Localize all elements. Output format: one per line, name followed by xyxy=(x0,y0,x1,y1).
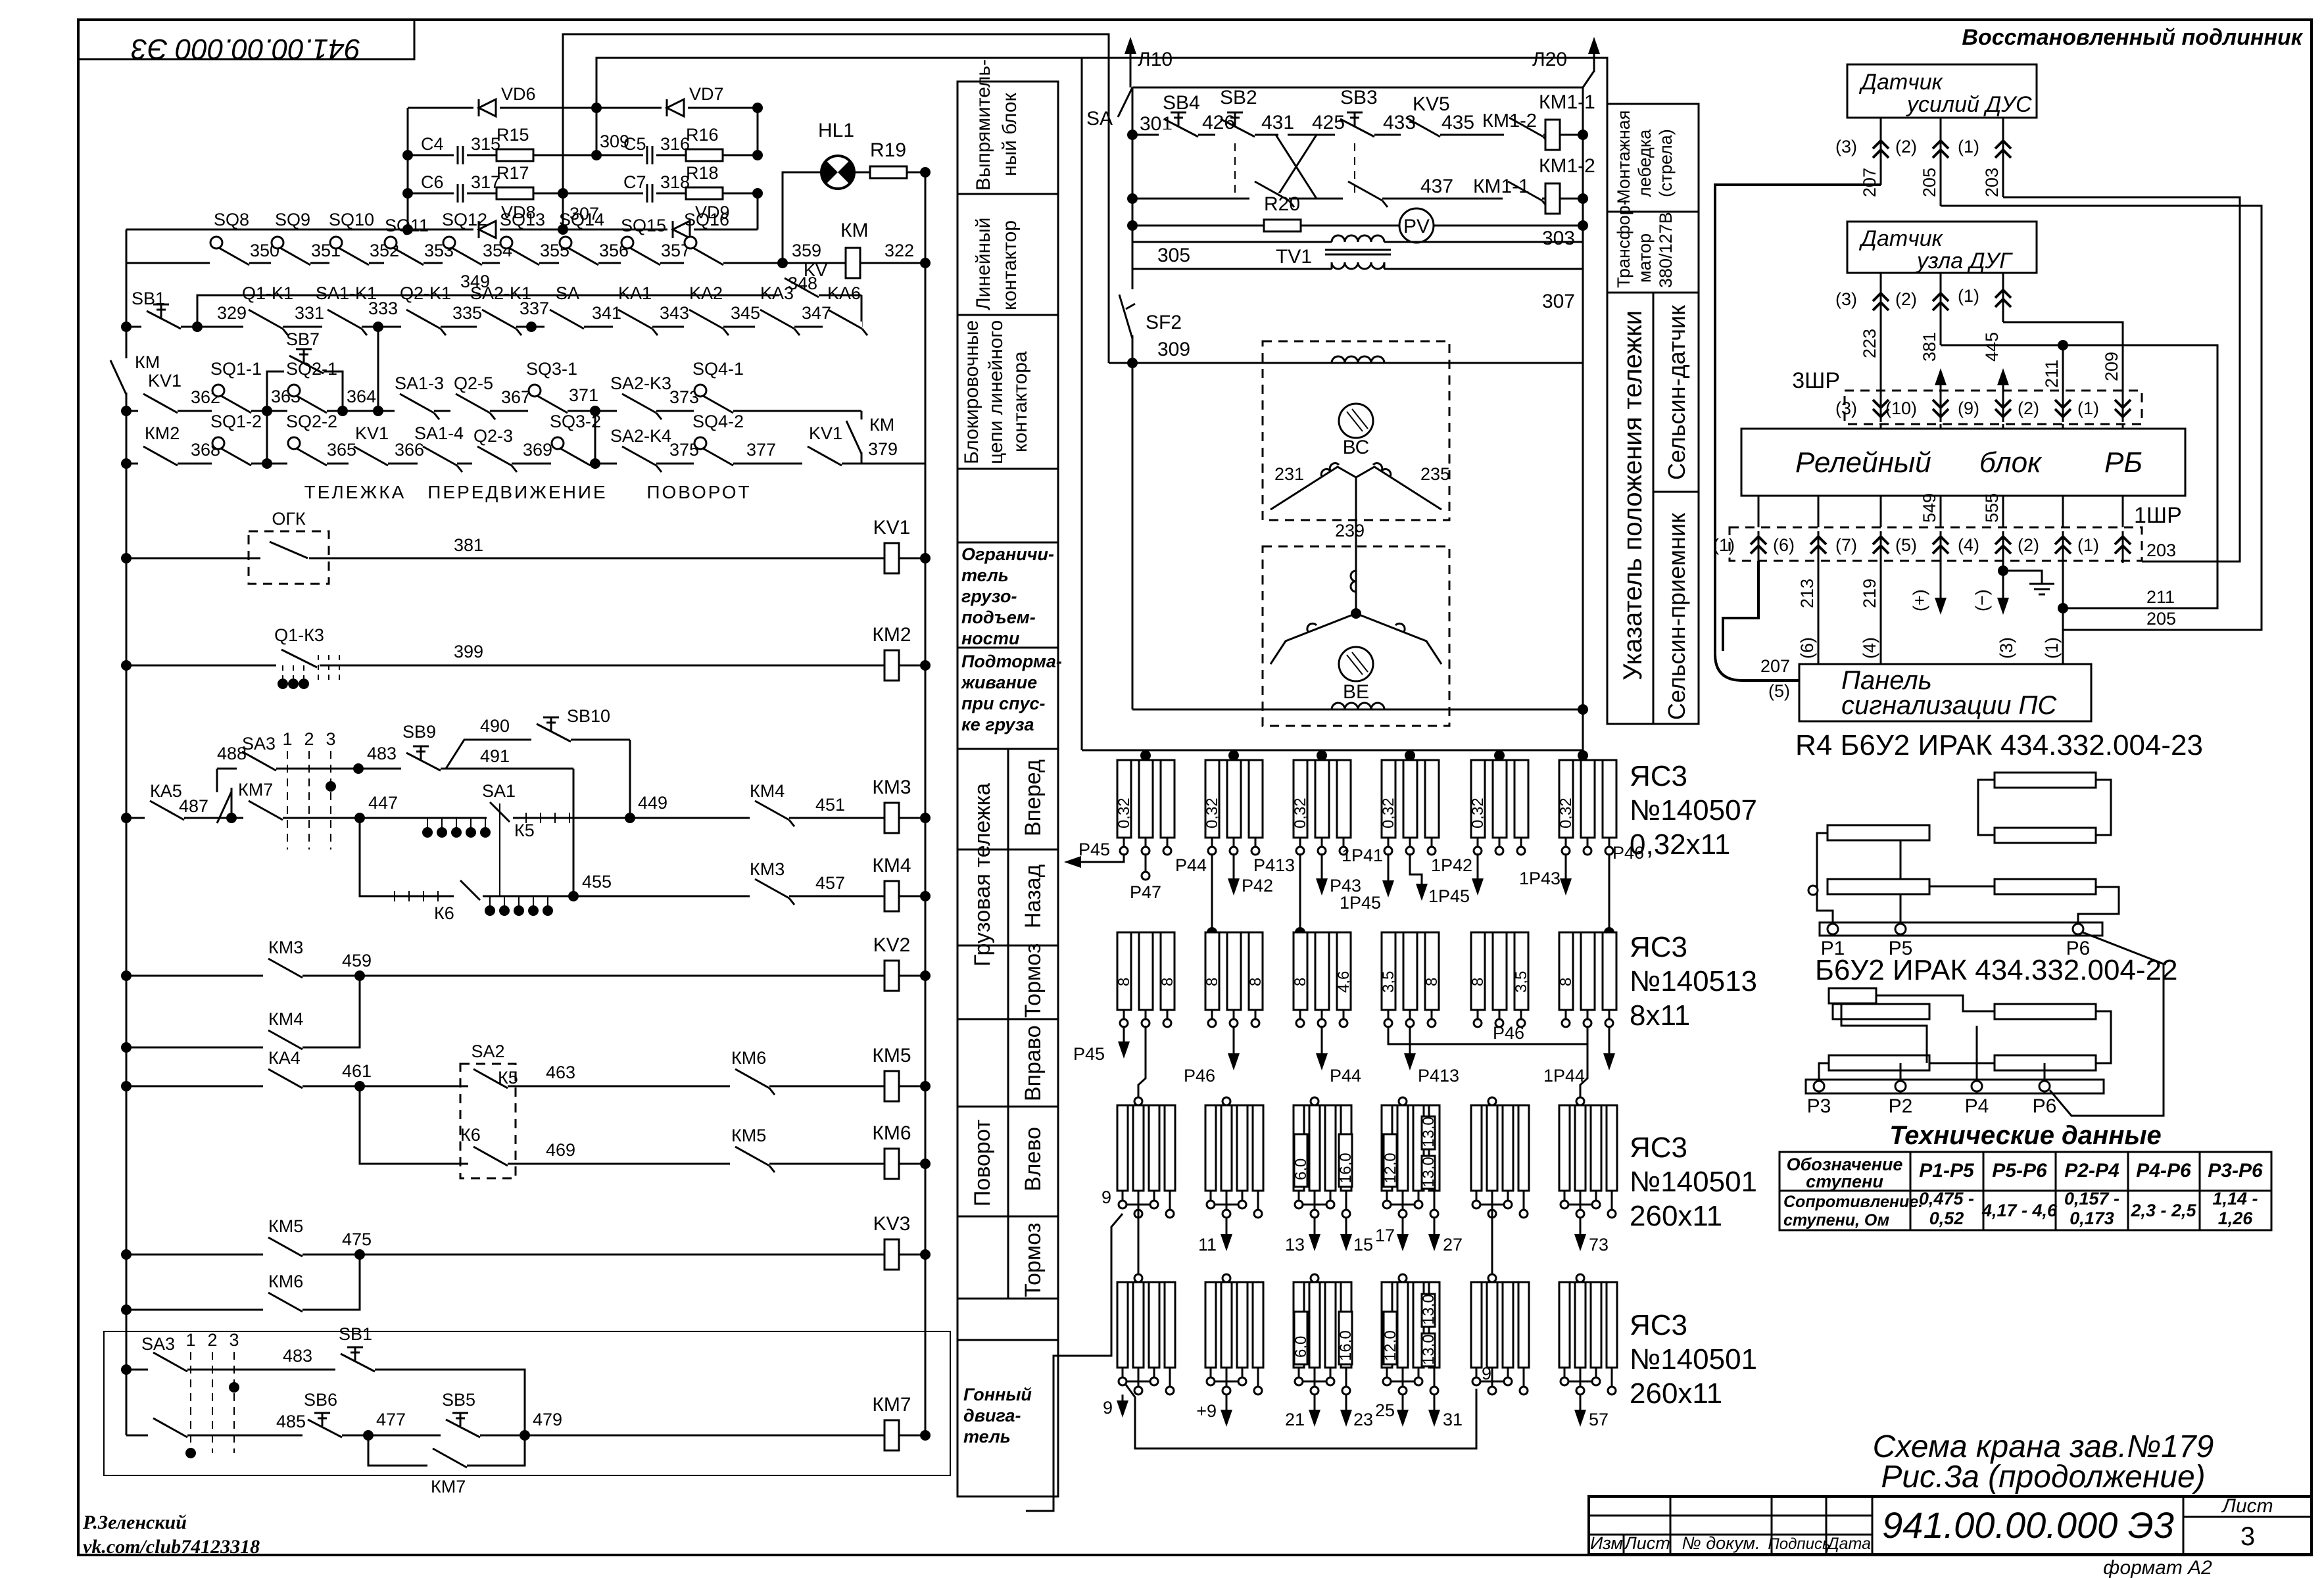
svg-text:13: 13 xyxy=(1285,1235,1305,1255)
svg-text:Восстановленный подлинник: Восстановленный подлинник xyxy=(1962,25,2303,50)
svg-text:15: 15 xyxy=(1353,1235,1373,1255)
svg-text:1P42: 1P42 xyxy=(1431,855,1472,875)
3ShR pin 3 xyxy=(1835,391,1889,429)
svg-text:Вправо: Вправо xyxy=(1021,1026,1046,1102)
terminal P6b xyxy=(2039,1081,2050,1091)
row3 value boxes xyxy=(1292,1116,1438,1189)
arrow 9 row4 xyxy=(1103,1395,1128,1418)
svg-text:207: 207 xyxy=(1860,168,1879,197)
svg-text:R20: R20 xyxy=(1264,193,1300,215)
bank row1 group1 xyxy=(1117,760,1174,855)
contactor coil KM5 xyxy=(884,1071,899,1101)
resistor bar G xyxy=(1833,1004,1929,1019)
1ShR pin 2 xyxy=(2018,531,2071,563)
contact KM1-2 on row1 xyxy=(1504,118,1549,143)
wire row SB1 / 329-347 xyxy=(126,326,861,328)
svg-text:477: 477 xyxy=(376,1410,406,1429)
node 449 xyxy=(625,813,635,823)
wire left vertical of network xyxy=(407,108,409,229)
svg-text:369: 369 xyxy=(523,440,552,460)
svg-text:SQ12: SQ12 xyxy=(442,210,487,229)
svg-text:331: 331 xyxy=(295,303,324,323)
limit switch SQ1-1 xyxy=(212,385,251,415)
capacitor C7 xyxy=(643,184,656,203)
svg-text:3: 3 xyxy=(326,729,335,749)
bank row3 group2 xyxy=(1205,1097,1263,1218)
svg-text:(−): (−) xyxy=(1972,589,1992,611)
svg-text:ности: ности xyxy=(961,629,1020,648)
push button SB10 xyxy=(531,717,571,744)
arrow 15 xyxy=(1340,1218,1373,1255)
wire C4 row xyxy=(408,155,758,156)
contactor blade KM on link xyxy=(846,415,898,459)
junction dot bus row625 xyxy=(121,406,132,416)
svg-text:Тормоз: Тормоз xyxy=(1021,1223,1046,1297)
wire 363-365 vertical xyxy=(266,411,268,464)
wire row KM6 bypass xyxy=(126,1255,360,1310)
svg-text:SA3: SA3 xyxy=(242,734,276,753)
relay block RB xyxy=(1741,429,2185,496)
selsyn BE rotor coil on 1079 xyxy=(1132,709,1583,711)
diode VD9 xyxy=(667,220,694,239)
sensor block DUS xyxy=(1847,64,2037,118)
switch SA xyxy=(545,310,584,331)
svg-text:vk.com/club74123318: vk.com/club74123318 xyxy=(83,1536,260,1558)
svg-text:SA: SA xyxy=(1086,108,1113,130)
svg-text:Q2-5: Q2-5 xyxy=(454,373,493,393)
wire corner 348 down xyxy=(861,295,863,327)
arrow 23 xyxy=(1340,1395,1373,1429)
svg-text:8: 8 xyxy=(1203,978,1221,986)
contact SA1-4 xyxy=(418,446,462,472)
arrow 17 xyxy=(1375,1218,1409,1251)
svg-text:P413: P413 xyxy=(1418,1066,1459,1086)
wire top inner link y=88 xyxy=(596,58,1082,155)
svg-text:P46: P46 xyxy=(1612,843,1644,863)
svg-text:455: 455 xyxy=(582,872,612,892)
signal panel PS xyxy=(1799,664,2091,721)
svg-text:459: 459 xyxy=(342,951,372,970)
1ShR pin 1a xyxy=(1713,531,1766,563)
contactor contact KM7 xyxy=(427,1448,467,1470)
terminal P6 xyxy=(2073,924,2083,934)
svg-text:4,6: 4,6 xyxy=(1335,971,1353,993)
wire row 362-373 xyxy=(126,410,861,412)
wire row 368-377 xyxy=(126,463,925,465)
svg-text:364: 364 xyxy=(347,387,376,406)
svg-text:SB6: SB6 xyxy=(304,1390,337,1410)
1ShR pin 7 xyxy=(1835,531,1889,563)
wire fork to 490 line xyxy=(446,740,630,769)
svg-text:491: 491 xyxy=(480,746,510,766)
contactor blade KM7 rising xyxy=(217,780,273,823)
resistor R17 xyxy=(496,187,533,199)
relay contact KV1 right xyxy=(802,446,842,467)
relay contact KV1 xyxy=(138,394,178,415)
wire SB7 sub-row xyxy=(267,371,343,411)
arrow 1P45 second xyxy=(1410,853,1470,906)
svg-text:3: 3 xyxy=(2240,1522,2255,1551)
svg-text:ЯС3: ЯС3 xyxy=(1630,760,1687,792)
svg-text:KV3: KV3 xyxy=(873,1213,911,1235)
row4 bottom route wire xyxy=(1126,1364,1491,1448)
svg-text:(2): (2) xyxy=(2018,398,2039,418)
wire 303 secondary xyxy=(1132,241,1332,243)
RB lead x2860 xyxy=(1880,496,1882,527)
wire P46 right xyxy=(1604,843,1644,938)
svg-text:1P41: 1P41 xyxy=(1342,846,1383,865)
resistor bar D xyxy=(1995,828,2096,843)
svg-text:KV1: KV1 xyxy=(355,423,389,443)
svg-text:399: 399 xyxy=(454,642,483,661)
push button SB7 xyxy=(284,349,324,375)
RB lead x3137 xyxy=(2062,496,2064,527)
svg-text:HL1: HL1 xyxy=(818,120,854,141)
wire row 447-451 xyxy=(126,817,925,819)
3ShR pin 1 xyxy=(2077,391,2131,429)
RB lead x3046 with 555 xyxy=(1982,493,2003,527)
resistor bar H xyxy=(1995,1004,2096,1019)
bank row2 group1 xyxy=(1117,932,1174,1027)
relay coil KV1 xyxy=(884,543,899,573)
relay contact KA4 xyxy=(263,1069,303,1090)
bank row2 group2 xyxy=(1205,932,1263,1027)
svg-text:309: 309 xyxy=(600,131,629,151)
svg-text:контактор: контактор xyxy=(999,220,1021,310)
limit switch SQ15 xyxy=(621,237,660,267)
bank row4 group4 xyxy=(1382,1274,1440,1395)
contactor contact KM3 xyxy=(750,879,794,905)
push button SB4 xyxy=(1159,112,1198,139)
svg-text:16,0: 16,0 xyxy=(1337,1153,1355,1183)
bank row2 group3 xyxy=(1294,932,1351,1027)
svg-text:P46: P46 xyxy=(1493,1023,1524,1043)
wire row 485-479 xyxy=(126,1435,925,1437)
svg-text:Технические данные: Технические данные xyxy=(1889,1121,2162,1150)
arrow P42 xyxy=(1228,853,1273,896)
svg-text:ТЕЛЕЖКА: ТЕЛЕЖКА xyxy=(304,482,406,502)
svg-text:SQ2-1: SQ2-1 xyxy=(286,359,337,379)
row3-row4 links xyxy=(1138,1208,1580,1274)
svg-text:941.00.00.000 Э3: 941.00.00.000 Э3 xyxy=(131,33,360,65)
contactor contact KM6 xyxy=(730,1069,775,1095)
arrow P43 xyxy=(1316,853,1361,896)
terminal P5 xyxy=(1895,924,1906,934)
bank row4 group6 xyxy=(1559,1274,1617,1395)
switch SA3 blade row2083 xyxy=(148,1352,187,1374)
svg-text:12,0: 12,0 xyxy=(1382,1153,1399,1183)
node 447 xyxy=(354,813,365,823)
switch SA3 blade row2183 xyxy=(148,1418,187,1439)
junction dot bus row497 xyxy=(121,322,132,332)
svg-text:Блокировочные: Блокировочные xyxy=(961,320,982,464)
svg-text:SQ14: SQ14 xyxy=(559,210,604,229)
wire bottom return xyxy=(1082,750,1583,752)
svg-text:Лист: Лист xyxy=(1623,1533,1670,1553)
svg-text:0,32: 0,32 xyxy=(1380,798,1397,828)
svg-text:SQ2-2: SQ2-2 xyxy=(286,412,337,431)
svg-text:SF2: SF2 xyxy=(1146,312,1182,333)
svg-text:P2: P2 xyxy=(1889,1095,1913,1117)
svg-text:грузо-: грузо- xyxy=(961,586,1017,606)
dashed link SB3 xyxy=(1354,143,1355,194)
dashed selector lines 1-2-3 xyxy=(287,751,288,849)
svg-text:309: 309 xyxy=(1157,339,1190,360)
svg-text:(3): (3) xyxy=(1835,137,1857,156)
svg-text:КМ5: КМ5 xyxy=(731,1126,766,1145)
svg-text:Подпись: Подпись xyxy=(1768,1535,1830,1553)
network 004-23 xyxy=(1808,773,2125,959)
svg-text:359: 359 xyxy=(792,241,821,260)
resistor R20 xyxy=(1264,220,1301,231)
svg-text:Линейный: Линейный xyxy=(973,218,994,310)
capacitor C6 xyxy=(454,184,467,203)
svg-text:Датчик: Датчик xyxy=(1858,70,1944,95)
svg-text:тель: тель xyxy=(963,1427,1011,1446)
svg-text:8: 8 xyxy=(1247,978,1265,986)
svg-text:Трансфор-: Трансфор- xyxy=(1614,199,1634,288)
svg-text:0,32: 0,32 xyxy=(1115,798,1133,828)
node 455 xyxy=(568,891,579,901)
1ShR pin 6 xyxy=(1773,531,1826,563)
svg-text:КМ2: КМ2 xyxy=(872,624,911,646)
bank row2 group4 xyxy=(1382,932,1439,1027)
svg-text:ный блок: ный блок xyxy=(999,92,1021,176)
bank row4 group3 xyxy=(1294,1274,1351,1395)
sensor block DUG xyxy=(1847,222,2037,274)
svg-text:SB10: SB10 xyxy=(567,706,610,726)
svg-text:SA1-4: SA1-4 xyxy=(414,423,464,443)
relay contact KV5 xyxy=(1401,118,1440,139)
wire HL1 row xyxy=(783,172,925,263)
svg-text:3ШР: 3ШР xyxy=(1792,368,1840,393)
svg-text:Р2-Р4: Р2-Р4 xyxy=(2064,1160,2119,1182)
svg-text:КМ7: КМ7 xyxy=(872,1394,911,1416)
svg-text:379: 379 xyxy=(868,439,898,459)
svg-text:3,5: 3,5 xyxy=(1513,971,1530,993)
svg-text:ВС: ВС xyxy=(1343,437,1370,458)
junction dot 349 branch xyxy=(192,322,203,332)
svg-text:337: 337 xyxy=(520,299,549,318)
svg-text:260х11: 260х11 xyxy=(1630,1377,1722,1410)
arrow P46 row2 xyxy=(1184,1026,1240,1086)
arrow P413 row2 xyxy=(1404,1026,1459,1086)
arrow 1P41 1P45 xyxy=(1340,846,1394,913)
svg-text:223: 223 xyxy=(1860,329,1879,358)
wire left bus middle xyxy=(1132,87,1134,363)
svg-text:КМ3: КМ3 xyxy=(750,859,785,879)
wire right bus middle xyxy=(1582,87,1584,750)
junction dot bus row705 xyxy=(121,458,132,469)
bank row4 group5 xyxy=(1471,1274,1529,1395)
svg-text:(4): (4) xyxy=(1958,535,1979,555)
svg-text:P45: P45 xyxy=(1078,840,1110,859)
svg-text:SA2-K4: SA2-K4 xyxy=(610,426,671,446)
svg-text:SQ11: SQ11 xyxy=(385,216,429,235)
svg-text:347: 347 xyxy=(802,303,831,323)
svg-text:SB7: SB7 xyxy=(286,329,320,349)
svg-text:КМ2: КМ2 xyxy=(145,423,180,443)
wire pin4b to PS xyxy=(1997,618,2016,664)
svg-text:Поворот: Поворот xyxy=(970,1119,995,1207)
wire row 301-435 xyxy=(1132,134,1583,136)
arrow L10 xyxy=(1125,37,1173,87)
arrow 73 xyxy=(1574,1218,1609,1255)
svg-text:Р5-Р6: Р5-Р6 xyxy=(1992,1160,2047,1182)
svg-text:TV1: TV1 xyxy=(1276,246,1312,268)
RB lead x2951 with 549 xyxy=(1920,493,1941,527)
svg-text:ПЕРЕДВИЖЕНИЕ: ПЕРЕДВИЖЕНИЕ xyxy=(427,482,607,502)
svg-text:Выпрямитель-: Выпрямитель- xyxy=(973,59,994,191)
contact K5 in SA2 xyxy=(468,1069,508,1090)
svg-text:Л10: Л10 xyxy=(1138,49,1173,70)
long link net1-P6 to net2-P6 xyxy=(2050,932,2164,1116)
push button SB1 lower xyxy=(335,1347,375,1374)
resistor bar J xyxy=(1995,1055,2096,1070)
svg-text:КМ7: КМ7 xyxy=(431,1477,466,1496)
bank row1 group2 xyxy=(1205,760,1263,855)
svg-text:451: 451 xyxy=(815,795,845,815)
svg-text:P46: P46 xyxy=(1184,1066,1215,1086)
svg-text:живание: живание xyxy=(960,673,1037,692)
row1 element values 0,32 xyxy=(1115,798,1575,828)
svg-text:C7: C7 xyxy=(623,172,646,192)
svg-text:(9): (9) xyxy=(1958,398,1979,418)
node 477 xyxy=(363,1430,374,1441)
resistor R19 xyxy=(870,166,907,178)
svg-text:C6: C6 xyxy=(421,172,444,192)
svg-text:К6: К6 xyxy=(434,903,454,923)
svg-text:цепи линейного: цепи линейного xyxy=(985,320,1007,464)
svg-text:№140501: №140501 xyxy=(1630,1343,1757,1375)
svg-text:КМ1-2: КМ1-2 xyxy=(1482,110,1537,131)
resistor bar I xyxy=(1829,1055,1929,1070)
switch SA left xyxy=(1086,87,1132,130)
svg-text:(2): (2) xyxy=(1895,289,1917,309)
svg-text:(1): (1) xyxy=(1958,286,1979,306)
svg-text:Тормоз: Тормоз xyxy=(1021,944,1046,1018)
svg-text:4,17 - 4,6: 4,17 - 4,6 xyxy=(1981,1201,2058,1220)
wire KM7 bypass row xyxy=(368,1435,525,1466)
svg-text:SB2: SB2 xyxy=(1220,87,1257,108)
svg-text:305: 305 xyxy=(1157,245,1190,266)
wire row 469 xyxy=(360,1086,925,1164)
svg-text:Указатель положения тележки: Указатель положения тележки xyxy=(1618,310,1647,681)
svg-text:435: 435 xyxy=(1441,112,1474,133)
svg-text:239: 239 xyxy=(1335,521,1365,540)
svg-text:KA3: KA3 xyxy=(760,283,794,303)
junction dot R19-bus xyxy=(920,167,931,178)
svg-text:13,0: 13,0 xyxy=(1420,1294,1438,1325)
wire top outer link y=52 xyxy=(563,34,1109,363)
wire right vertical lower xyxy=(757,193,759,229)
wire right coil bus xyxy=(925,172,927,1435)
svg-text:сигнализации ПС: сигнализации ПС xyxy=(1841,691,2057,720)
half split verticals xyxy=(1007,749,1009,1299)
svg-text:345: 345 xyxy=(731,303,760,323)
svg-text:490: 490 xyxy=(480,716,510,736)
svg-text:483: 483 xyxy=(283,1346,312,1366)
svg-text:6,0: 6,0 xyxy=(1292,1159,1310,1180)
switch SA3 lower blade xyxy=(243,801,283,822)
svg-text:371: 371 xyxy=(569,385,598,405)
svg-text:549: 549 xyxy=(1920,493,1939,523)
svg-text:555: 555 xyxy=(1982,493,2002,523)
svg-text:(6): (6) xyxy=(1773,535,1795,555)
limit switch SQ9 xyxy=(271,237,310,267)
svg-text:0,475 -: 0,475 - xyxy=(1919,1189,1974,1208)
wire 203 route xyxy=(2003,197,2240,562)
svg-text:подъем-: подъем- xyxy=(961,608,1036,627)
svg-text:К5: К5 xyxy=(514,821,535,840)
wire row 455-457 xyxy=(360,818,925,896)
load limiter OGK dashed box xyxy=(249,509,329,584)
svg-text:211: 211 xyxy=(2146,587,2175,607)
svg-text:11: 11 xyxy=(1198,1235,1217,1255)
wire VD8 row / node 307 xyxy=(126,229,758,231)
contactor contact KM5 row1908 xyxy=(263,1237,303,1258)
wire left bus lower middle xyxy=(1132,363,1134,709)
svg-text:SA2: SA2 xyxy=(471,1041,504,1061)
selector SA1 contact K6 xyxy=(395,880,553,923)
svg-text:(2): (2) xyxy=(1895,137,1917,156)
arrow P44 row2 xyxy=(1316,1026,1361,1086)
svg-text:Монтажная: Монтажная xyxy=(1614,110,1634,204)
svg-text:1ШР: 1ШР xyxy=(2134,503,2182,528)
wire left bus xyxy=(126,229,128,1435)
breaker SF2 xyxy=(1119,289,1182,339)
terminal P4 xyxy=(1972,1081,1982,1091)
contact K6 in SA2 xyxy=(468,1147,508,1168)
svg-text:343: 343 xyxy=(660,303,689,323)
enclosure box middle section xyxy=(1082,58,1607,750)
svg-text:КА5: КА5 xyxy=(150,781,182,801)
svg-text:VD6: VD6 xyxy=(501,84,536,104)
wire row 483 lower xyxy=(126,1370,525,1435)
table header texts xyxy=(1787,1155,2263,1191)
limit switch SQ2-1 xyxy=(287,385,327,415)
wire row R20 PV 303 xyxy=(1132,225,1583,227)
node 475 xyxy=(354,1249,365,1260)
bank row3 group4 xyxy=(1382,1097,1440,1218)
svg-text:Л20: Л20 xyxy=(1532,49,1567,70)
svg-text:P45: P45 xyxy=(1073,1044,1105,1064)
node 371-joint xyxy=(590,458,600,469)
svg-text:KV1: KV1 xyxy=(873,517,911,538)
limit switch SQ11 xyxy=(384,237,424,267)
contactor contact KM4 xyxy=(750,801,794,826)
DUG lead 1 xyxy=(1958,273,2011,322)
svg-text:0,173: 0,173 xyxy=(2070,1208,2114,1228)
svg-text:941.00.00.000 Э3: 941.00.00.000 Э3 xyxy=(1882,1504,2174,1546)
lamp HL1 xyxy=(821,156,854,189)
svg-text:SQ3-1: SQ3-1 xyxy=(526,359,577,379)
svg-text:17: 17 xyxy=(1375,1226,1395,1245)
link row2-row3 g1 xyxy=(1138,1026,1146,1098)
selsyn BC rotor coil on 309 xyxy=(1332,356,1384,363)
svg-text:КМ5: КМ5 xyxy=(872,1045,911,1066)
wire row 305 xyxy=(1132,268,1332,270)
bank row2 group5 xyxy=(1471,932,1528,1027)
wire 491 corner down to 455 xyxy=(573,769,575,896)
svg-text:57: 57 xyxy=(1589,1410,1609,1429)
svg-text:(3): (3) xyxy=(1835,398,1857,418)
svg-text:485: 485 xyxy=(276,1412,306,1431)
svg-text:SA2-K3: SA2-K3 xyxy=(610,373,671,393)
svg-text:Б6У2 ИРАК 434.332.004-22: Б6У2 ИРАК 434.332.004-22 xyxy=(1815,954,2178,986)
svg-text:365: 365 xyxy=(327,440,356,460)
svg-text:0,32: 0,32 xyxy=(1203,798,1221,828)
